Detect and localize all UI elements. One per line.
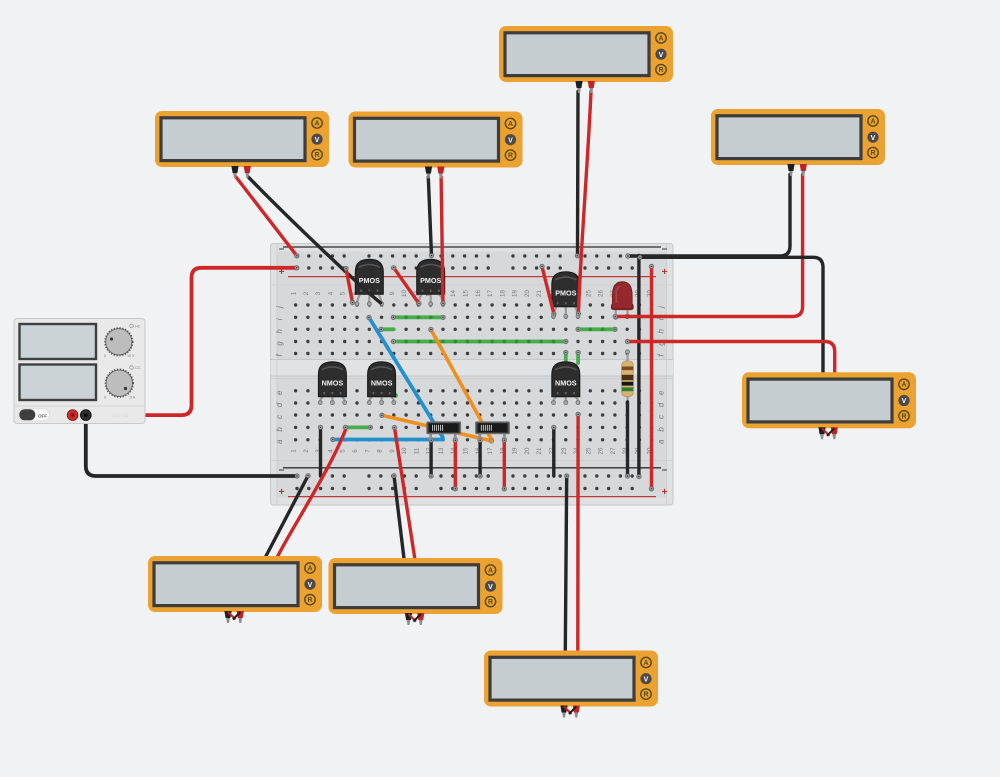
power supply red terminal [67,410,78,421]
svg-text:NMOS: NMOS [371,378,393,387]
breadboard holes [294,254,654,490]
wire red c24 to M8 [576,414,580,650]
transistor NMOS Q6 [552,362,581,405]
svg-text:h: h [275,329,284,334]
svg-text:18: 18 [499,290,506,297]
svg-text:–: – [662,244,668,255]
transistor NMOS Q5 [367,362,396,405]
wire black M4 probe to minus rail [628,175,790,257]
svg-text:e: e [656,390,665,395]
svg-text:5: 5 [340,449,347,453]
wire red plus rail to j6 [346,269,353,303]
wire red b5 to M6 [278,429,346,557]
svg-text:14: 14 [450,290,457,297]
svg-text:5 A: 5 A [130,396,136,400]
svg-text:d: d [275,402,284,407]
wire red plus rail to j11 [394,268,419,304]
svg-text:10 V: 10 V [127,354,135,358]
svg-text:30V 5A: 30V 5A [112,414,129,420]
svg-text:17: 17 [487,447,494,454]
svg-text:26: 26 [598,447,605,454]
svg-text:19: 19 [512,447,519,454]
power supply black terminal [81,410,92,421]
wire green g9-g23 [393,340,565,344]
wire black a12 to minus rail [429,440,432,476]
svg-text:–: – [662,465,668,476]
svg-text:27: 27 [610,447,617,454]
wire connection pads [295,253,654,491]
svg-text:OFF: OFF [38,413,47,418]
svg-text:15: 15 [463,447,470,454]
slide switch S1 [427,422,461,441]
svg-text:15: 15 [463,290,470,297]
svg-text:c: c [275,415,284,419]
svg-text:b: b [275,427,284,432]
multimeter M8 [484,651,658,718]
wire green b5-b7 [346,425,371,429]
wire red a14 to plus rail [454,440,457,489]
svg-text:21: 21 [536,447,543,454]
wire orange c8 to a17 [382,415,491,441]
wire red M3 probe to i24 [578,92,591,314]
svg-text:9: 9 [389,291,396,295]
svg-text:a: a [656,439,665,444]
multimeter M1 [155,111,329,178]
svg-text:10: 10 [401,447,408,454]
multimeter M4 [711,109,885,176]
wire green i9-i13 [393,315,443,319]
wire black minus rail to M8 [565,476,566,651]
orange wire end pad at a17 [489,439,493,443]
svg-text:a: a [275,439,284,444]
svg-text:e: e [275,390,284,395]
svg-text:23: 23 [561,447,568,454]
multimeter M2 [349,112,523,179]
wire black M5 probe to minus rail [640,257,823,372]
svg-text:6: 6 [352,449,359,453]
svg-text:0: 0 [104,396,106,400]
green wire junctions [392,315,617,343]
svg-text:25: 25 [585,290,592,297]
svg-text:2: 2 [303,449,310,453]
svg-text:PMOS: PMOS [359,276,380,285]
wire green e9 stub [393,393,398,398]
svg-text:c: c [656,415,665,419]
svg-text:CC: CC [135,366,141,370]
wire black resistor col28 to minus rail [626,402,629,476]
svg-text:j: j [275,306,284,309]
svg-text:h: h [656,329,665,334]
svg-text:17: 17 [487,290,494,297]
svg-text:b: b [656,427,665,432]
svg-text:NMOS: NMOS [555,378,577,387]
svg-text:0: 0 [104,354,106,358]
svg-text:19: 19 [512,290,519,297]
svg-text:1: 1 [291,291,298,295]
multimeter M5 [742,372,916,439]
svg-text:4: 4 [327,449,334,453]
svg-text:NMOS: NMOS [322,378,344,387]
wire green h24-h27 [578,327,615,331]
svg-text:PMOS: PMOS [555,289,576,298]
wire green h8-h9 [381,327,393,331]
svg-text:1: 1 [291,449,298,453]
transistor PMOS Q2 [416,259,445,306]
wire green f24 stub [576,353,580,364]
svg-text:+: + [662,487,668,498]
wire blue a4-a13 [333,438,443,442]
svg-text:–: – [279,465,285,476]
svg-text:21: 21 [536,290,543,297]
svg-text:+: + [662,267,668,278]
svg-text:9: 9 [389,449,396,453]
wire red rail link col30 [650,267,653,489]
wire black minus rail to M6 [266,476,308,556]
breadboard labels [275,290,666,455]
wire black M3 probe to minus rail [576,92,580,256]
LED D1 [611,282,634,320]
svg-text:26: 26 [598,290,605,297]
wire black rail link col29 [637,256,640,477]
wire red a18 to plus rail [503,440,506,489]
svg-text:16: 16 [475,290,482,297]
svg-text:7: 7 [364,449,371,453]
wire black b22 to minus rail [552,427,555,476]
svg-text:i: i [656,318,665,320]
resistor R1 [622,350,634,403]
wire black power supply to minus rail [86,415,297,476]
wire black minus rail to M7 [394,476,404,559]
wire black M1 probe to j8 [248,177,380,303]
wire blue i7 to a13 [369,318,443,440]
svg-text:3: 3 [315,291,322,295]
svg-text:13: 13 [438,447,445,454]
multimeter M3 [499,26,673,93]
wire green f23 stub [564,353,568,364]
wire orange h12 to a16 [431,330,492,442]
wire red power supply to plus rail [73,268,297,415]
svg-text:5: 5 [340,291,347,295]
svg-text:8: 8 [377,449,384,453]
svg-text:20: 20 [524,447,531,454]
wire red g28 to M5 probe [628,342,835,373]
wire red M2 probe to j13 [441,177,443,303]
multimeter M6 [148,556,322,623]
multimeter M7 [329,558,503,625]
transistor NMOS Q4 [318,362,347,405]
svg-text:10: 10 [401,290,408,297]
wire black b3 to minus rail [319,427,322,476]
svg-text:HC: HC [135,325,141,329]
svg-text:2: 2 [303,291,310,295]
svg-text:–: – [279,244,285,255]
svg-text:+: + [279,487,285,498]
wire red plus rail to i22 [542,267,554,315]
svg-text:j: j [656,306,665,309]
power supply [14,319,145,424]
breadboard [271,244,674,506]
wire black M2 probe to minus rail [428,177,431,256]
wire tip pads [295,254,653,491]
wire black a16 to minus rail [478,440,481,476]
wire red M4 probe to i27 [615,175,802,317]
svg-text:11: 11 [413,447,420,454]
svg-text:i: i [275,318,284,320]
transistor PMOS Q1 [355,259,384,306]
svg-text:d: d [656,402,665,407]
svg-text:20: 20 [524,290,531,297]
svg-text:PMOS: PMOS [420,276,441,285]
transistor PMOS Q3 [552,272,581,319]
svg-text:25: 25 [585,447,592,454]
wire red b9 to M7 [395,428,415,559]
slide switch S2 [476,422,510,441]
wire red M1 probe to minus rail hole1 [236,177,297,256]
svg-text:4: 4 [327,291,334,295]
svg-text:g: g [275,341,284,346]
